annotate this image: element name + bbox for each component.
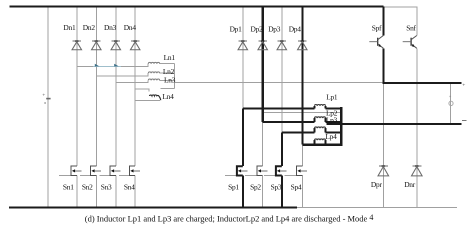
svg-text:Spf: Spf <box>372 24 382 33</box>
svg-text:Dp4: Dp4 <box>289 24 302 33</box>
svg-text:+: + <box>449 94 452 99</box>
svg-text:Ln1: Ln1 <box>164 53 176 62</box>
svg-text:Ln3: Ln3 <box>164 76 176 85</box>
svg-text:Dp2: Dp2 <box>251 24 264 33</box>
svg-text:Sp4: Sp4 <box>291 182 302 191</box>
svg-text:Dp3: Dp3 <box>268 24 281 33</box>
svg-text:Dn1: Dn1 <box>63 23 76 32</box>
svg-text:Sp2: Sp2 <box>250 182 261 191</box>
svg-text:Dn4: Dn4 <box>124 23 137 32</box>
svg-text:4: 4 <box>369 213 373 222</box>
svg-text:(d) Inductor Lp1 and Lp3 are c: (d) Inductor Lp1 and Lp3 are charged; In… <box>85 214 368 224</box>
svg-text:+: + <box>42 93 45 99</box>
svg-text:Sp1: Sp1 <box>228 182 239 191</box>
svg-text:Sn3: Sn3 <box>101 182 112 191</box>
svg-text:Dnr: Dnr <box>404 180 416 189</box>
svg-text:Dpr: Dpr <box>371 180 383 189</box>
svg-text:Lp1: Lp1 <box>326 93 338 102</box>
svg-text:Dn3: Dn3 <box>104 23 117 32</box>
svg-text:Sp3: Sp3 <box>271 182 282 191</box>
svg-text:Dp1: Dp1 <box>230 24 243 33</box>
svg-text:Sn1: Sn1 <box>63 182 74 191</box>
svg-text:Dn2: Dn2 <box>83 23 96 32</box>
svg-text:Lp4: Lp4 <box>325 132 337 141</box>
svg-text:Ln4: Ln4 <box>162 92 174 101</box>
svg-text:Sn2: Sn2 <box>82 182 93 191</box>
svg-text:+: + <box>462 82 465 88</box>
svg-text:Sn4: Sn4 <box>124 182 135 191</box>
svg-text:Lp3: Lp3 <box>326 115 338 124</box>
svg-text:Snf: Snf <box>406 24 416 33</box>
